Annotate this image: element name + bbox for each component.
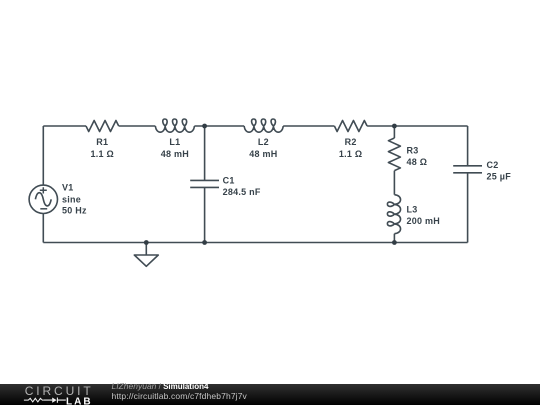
wire L2 to R2	[283, 125, 334, 127]
wire left vertical V1 bottom	[42, 214, 44, 243]
voltage source V1	[29, 185, 57, 213]
svg-text:C2: C2	[487, 160, 499, 170]
svg-text:sine: sine	[62, 195, 81, 205]
wire L1 to L2 through node A	[194, 125, 244, 127]
svg-text:50 Hz: 50 Hz	[62, 206, 87, 216]
wire right vertical bottom	[467, 173, 469, 243]
wire bottom rail	[43, 242, 467, 244]
svg-text:LAB: LAB	[66, 396, 93, 405]
wire R1 to L1	[119, 125, 156, 127]
svg-text:L3: L3	[407, 205, 418, 215]
footer title line	[112, 381, 209, 391]
svg-text:R1: R1	[96, 137, 108, 147]
svg-text:48 mH: 48 mH	[161, 149, 189, 159]
footer bar	[0, 384, 540, 405]
svg-text:200 mH: 200 mH	[407, 216, 441, 226]
svg-text:1.1 Ω: 1.1 Ω	[91, 149, 114, 159]
logo resistor zigzag	[24, 398, 44, 402]
svg-text:25 µF: 25 µF	[487, 171, 512, 181]
ground junction dot	[144, 240, 149, 245]
svg-text:V1: V1	[62, 183, 74, 193]
inductor L2	[244, 119, 283, 132]
CircuitLab logo	[0, 384, 100, 405]
svg-text:48 Ω: 48 Ω	[407, 157, 428, 167]
capacitor C2	[453, 166, 482, 173]
ground	[134, 243, 158, 267]
footer url line	[112, 392, 247, 400]
inductor L3	[387, 195, 400, 234]
wire R2 to node B and top-right corner	[367, 125, 468, 127]
resistor R1	[86, 121, 119, 132]
node A junction dot	[202, 124, 207, 129]
wire top-left from V1 to R1	[43, 125, 86, 127]
svg-text:C1: C1	[223, 176, 235, 186]
wire L3 bottom lead	[393, 234, 395, 243]
node C junction dot	[202, 240, 207, 245]
svg-text:48 mH: 48 mH	[249, 149, 277, 159]
inductor L1	[155, 119, 194, 132]
svg-text:L2: L2	[258, 137, 269, 147]
resistor R2	[334, 121, 367, 132]
wire right vertical top	[467, 126, 469, 166]
node D junction dot	[392, 240, 397, 245]
capacitor C1	[190, 180, 219, 187]
logo diode	[44, 398, 66, 403]
wire R3 to L3	[393, 171, 395, 195]
wire left vertical V1 top	[42, 126, 44, 185]
wire R3 top lead	[393, 126, 395, 138]
node B junction dot	[392, 124, 397, 129]
svg-text:R3: R3	[407, 146, 419, 156]
svg-text:284.5 nF: 284.5 nF	[223, 187, 261, 197]
resistor R3	[388, 138, 400, 171]
wire C1 column bottom	[204, 187, 206, 242]
wire C1 column top	[204, 126, 206, 180]
svg-text:L1: L1	[169, 137, 180, 147]
svg-text:1.1 Ω: 1.1 Ω	[339, 149, 362, 159]
svg-text:R2: R2	[345, 137, 357, 147]
